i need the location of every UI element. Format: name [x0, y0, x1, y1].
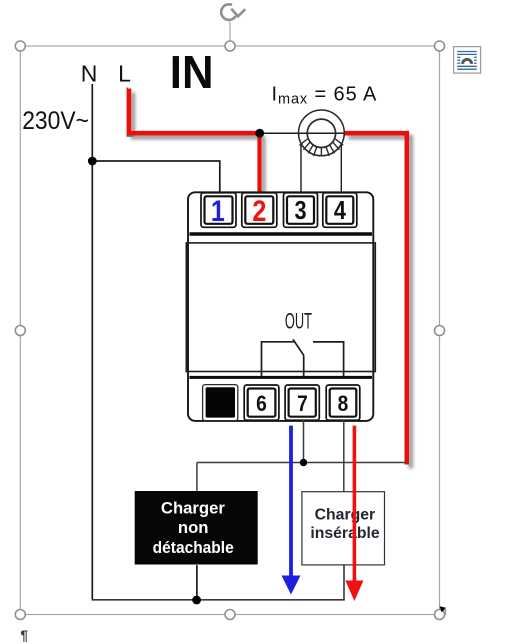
terminal 8 [326, 385, 360, 420]
relay switch pole to 7 [303, 355, 305, 377]
terminal 3 [284, 193, 318, 228]
wire: horizontal bus to red wire [197, 462, 407, 464]
node: junction black box lead / bottom bus [192, 596, 201, 605]
svg-text:L: L [118, 61, 131, 87]
terminal 4 [323, 193, 357, 228]
svg-text:insérable: insérable [310, 525, 380, 542]
svg-text:non: non [178, 518, 209, 537]
wire: CT primary horizontal through transformer [260, 132, 344, 134]
svg-text:IN: IN [170, 46, 214, 98]
wire: branch from N line to terminal 1 [92, 161, 220, 193]
svg-text:7: 7 [297, 392, 308, 416]
cursor mark near bottom-right handle [440, 606, 447, 615]
blue arrow from terminal 7 [282, 426, 301, 595]
red wire from CT to right side down [345, 133, 407, 464]
selection handles [15, 41, 444, 620]
node: junction red L-wire / terminal 2 [255, 129, 264, 138]
svg-text:¶: ¶ [21, 628, 29, 643]
terminal 6 [244, 385, 279, 420]
bottom strip thick top edge [190, 376, 373, 379]
relay switch contact 6 [262, 342, 295, 378]
node: junction terminal 7 / bus [300, 459, 307, 466]
svg-text:OUT: OUT [285, 308, 312, 334]
svg-text:2: 2 [252, 194, 266, 227]
device outline [188, 192, 373, 421]
black box: Charger non détachable [135, 491, 258, 565]
device body [186, 243, 375, 372]
wire: CT leg to terminal 3 [300, 143, 302, 193]
layout options button [454, 47, 481, 74]
current transformer winding hatch [300, 139, 344, 156]
svg-text:6: 6 [256, 392, 267, 416]
svg-text:Charger: Charger [161, 498, 225, 517]
wire: black corner under red L wire [127, 88, 133, 137]
svg-text:230V~: 230V~ [22, 107, 89, 135]
current transformer (inner ring) [307, 119, 335, 147]
svg-text:1: 1 [211, 194, 225, 227]
wire: bus corner down to black box [196, 463, 198, 491]
red wire down to terminal 2 [257, 133, 261, 193]
relay switch contact 8 [313, 342, 344, 376]
relay switch blade [293, 339, 304, 355]
rotation handle stem [229, 22, 231, 42]
svg-text:4: 4 [334, 198, 347, 226]
wire: bottom bus to white box [92, 565, 344, 600]
svg-text:8: 8 [338, 392, 349, 416]
red arrow from terminal 8 [345, 426, 363, 601]
wire: CT leg to terminal 4 [340, 143, 342, 193]
terminal 1 [201, 193, 236, 228]
white box: Charger insérable [302, 492, 385, 565]
current transformer (outer ring) [299, 110, 345, 156]
svg-text:N: N [81, 61, 98, 87]
wire: terminal 7 down to bus [303, 420, 305, 462]
selection frame [20, 46, 439, 615]
top strip thick bottom edge [190, 232, 373, 235]
red wire from L to junction above terminal 2 [129, 89, 260, 134]
wire: N vertical [91, 84, 93, 599]
terminal 2 [242, 193, 277, 228]
wire: black box bottom lead [196, 565, 198, 600]
wire: terminal 8 down to white box [343, 420, 345, 491]
svg-text:Charger: Charger [315, 506, 376, 523]
svg-text:détachable: détachable [153, 539, 234, 558]
terminal X (black) [203, 385, 238, 421]
node: junction on N line [88, 157, 97, 166]
rotation handle icon [221, 4, 245, 20]
svg-text:3: 3 [294, 198, 306, 226]
terminal 7 [285, 385, 319, 420]
